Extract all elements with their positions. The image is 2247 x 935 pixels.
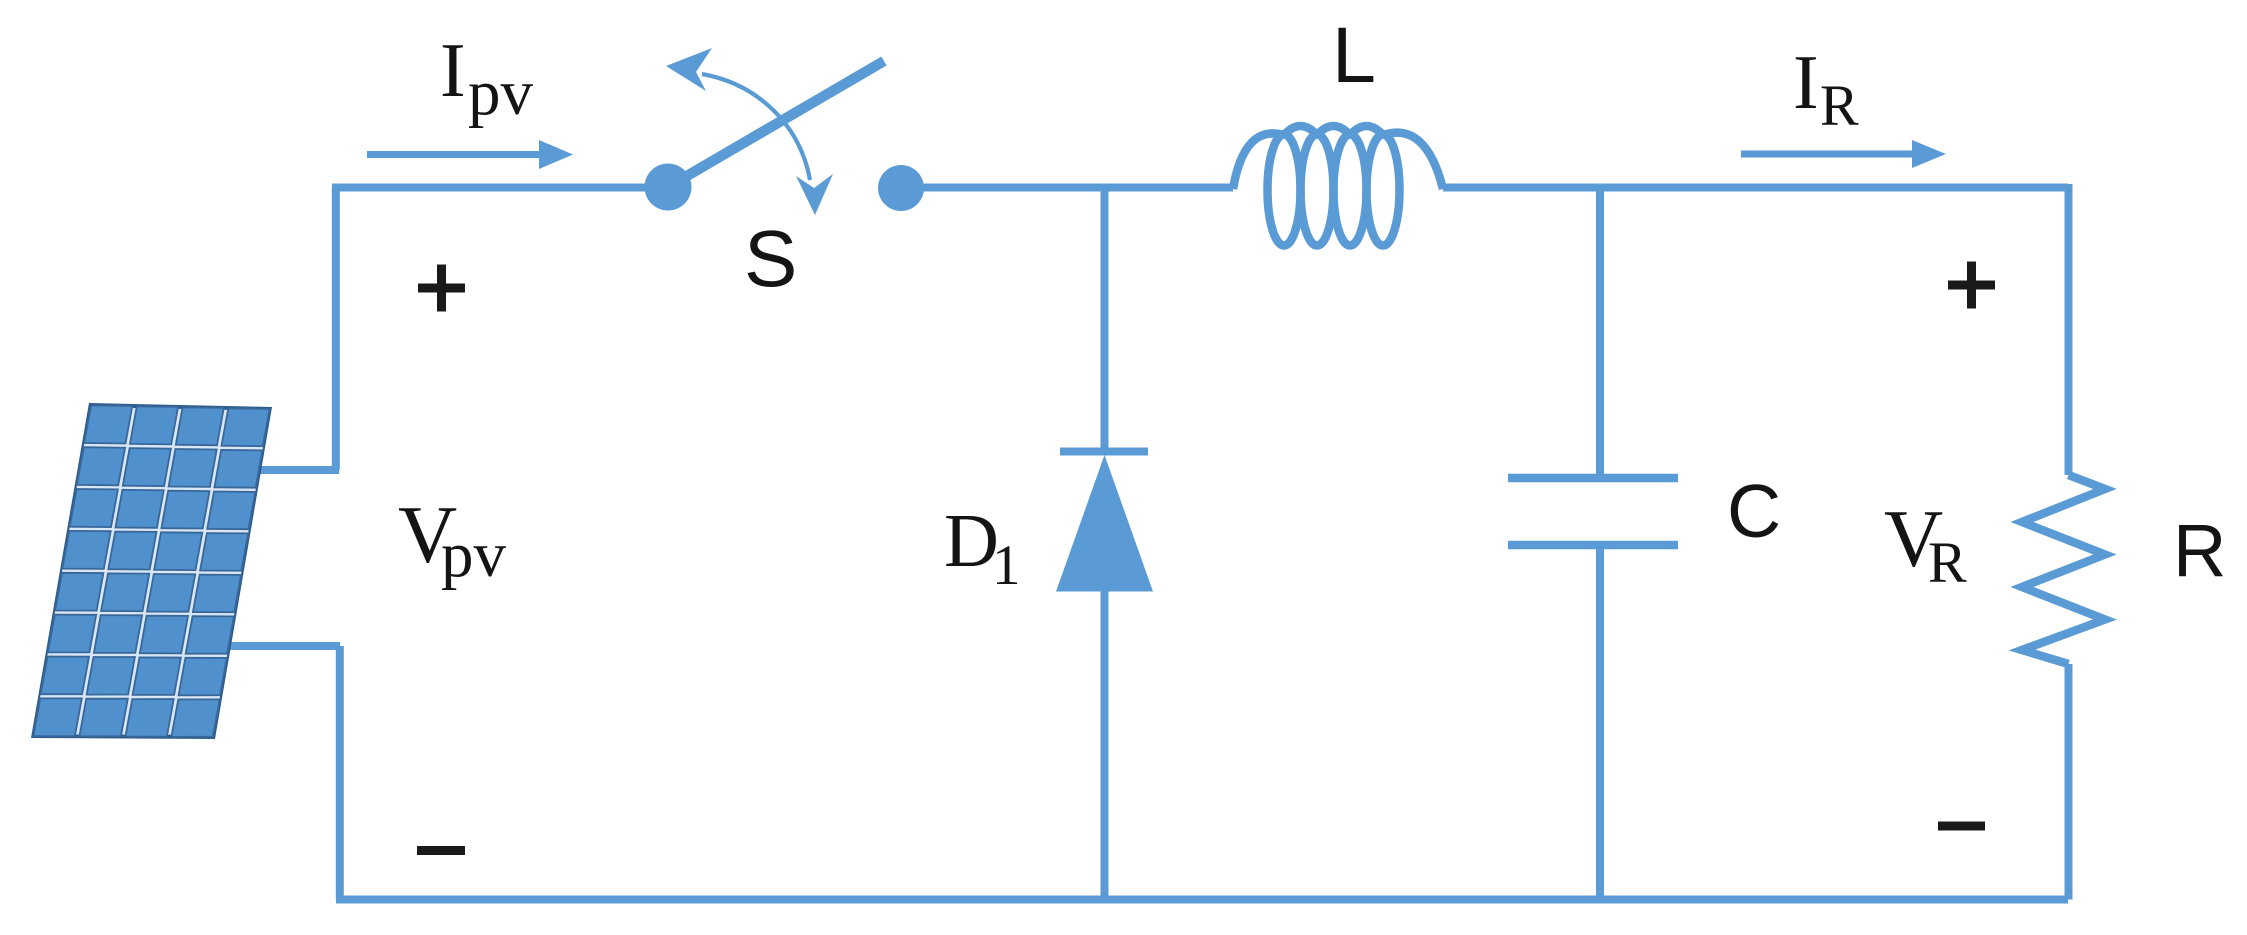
capacitor C bottom plate [1508, 541, 1678, 550]
svg-text:I: I [440, 27, 466, 113]
PV panel outer frame [31, 403, 272, 739]
current arrow IR [1741, 151, 1915, 158]
svg-text:R: R [1820, 73, 1859, 138]
svg-text:L: L [1332, 10, 1376, 99]
svg-text:R: R [2173, 509, 2226, 592]
PV panel cells [84, 405, 132, 443]
svg-text:D: D [944, 499, 999, 583]
svg-text:C: C [1727, 469, 1781, 553]
svg-text:R: R [1928, 530, 1967, 595]
PV panel inner light frame [34, 407, 270, 735]
resistor R zigzag [2022, 475, 2105, 664]
svg-text:I: I [1793, 39, 1819, 125]
svg-text:S: S [744, 214, 797, 303]
wire left vertical lower (PV - terminal down to bottom wire) [336, 646, 344, 900]
wire diode bottom vertical [1101, 590, 1109, 900]
wire bottom rail [336, 896, 2068, 904]
wire right vertical lower (resistor to bottom rail) [2065, 664, 2073, 900]
wire diode anode/cathode vertical [1101, 188, 1109, 449]
switch rotation arc [702, 74, 810, 180]
wire switch to diode node to inductor [900, 184, 1233, 192]
wire PV plus stub [258, 466, 339, 474]
switch S right contact dot [878, 165, 924, 211]
minus sign right (VR -) [1938, 822, 1985, 831]
diode D1 cathode bar [1060, 448, 1148, 456]
switch arc arrowhead upper-left [666, 48, 712, 91]
svg-text:pv: pv [468, 57, 534, 129]
wire left vertical upper (PV + terminal to top wire) [332, 188, 340, 471]
current arrow Ipv [367, 151, 542, 158]
svg-text:pv: pv [441, 519, 507, 591]
switch S lever arm [668, 61, 884, 187]
plus sign left (Vpv +) [418, 265, 465, 312]
wire PV minus stub [230, 642, 340, 650]
switch arc arrowhead lower (pointing down) [796, 174, 833, 215]
capacitor C top plate [1508, 474, 1678, 483]
minus sign left (Vpv -) [417, 846, 465, 855]
svg-text:1: 1 [992, 534, 1021, 597]
plus sign right (VR +) [1948, 262, 1995, 309]
wire inductor to capacitor node to top-right corner [1443, 184, 2068, 192]
switch S left contact dot [645, 164, 692, 211]
wire top-left horizontal (node between PV and switch) [332, 184, 672, 192]
wire right vertical upper (to resistor) [2065, 184, 2073, 475]
wire capacitor top vertical [1596, 188, 1604, 479]
inductor L coil [1233, 126, 1443, 246]
diode D1 triangle [1056, 455, 1153, 592]
wire capacitor bottom vertical [1596, 545, 1604, 900]
